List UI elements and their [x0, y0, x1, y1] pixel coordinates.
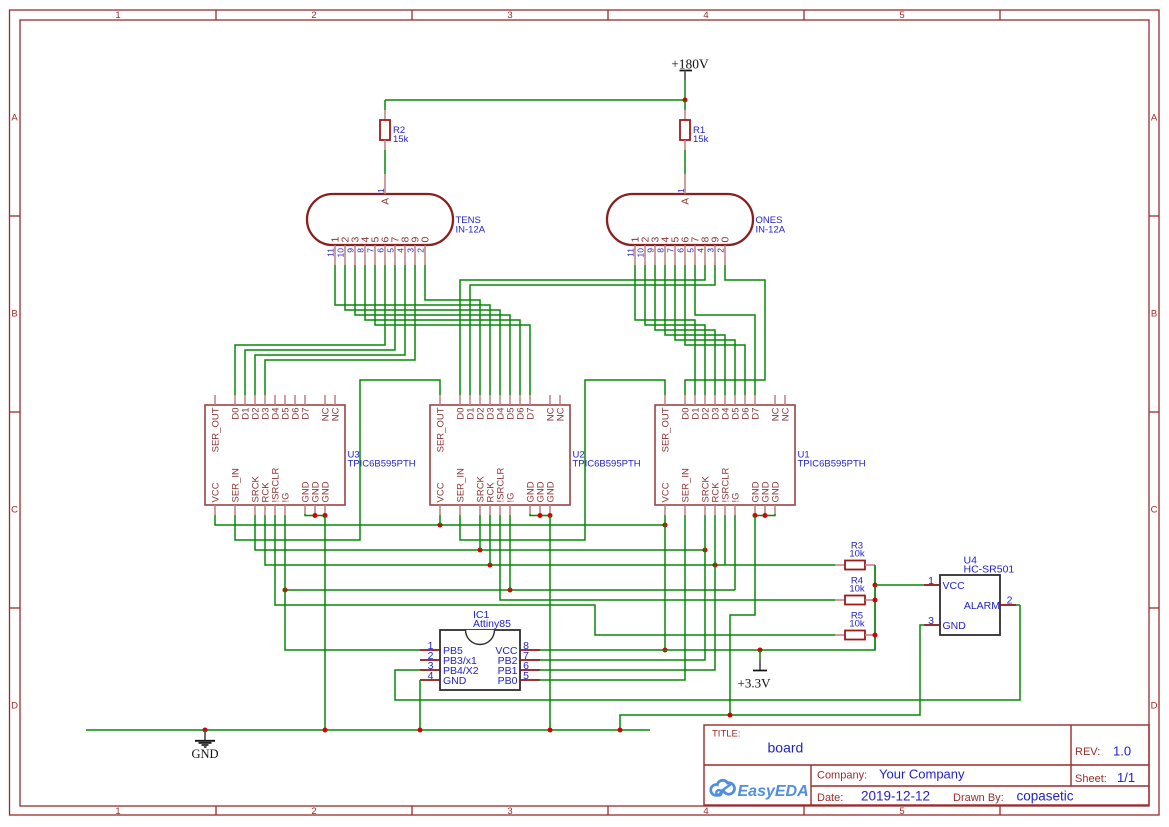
- svg-text:0: 0: [420, 237, 432, 243]
- wire U2 VCC stub wire: [439, 515, 441, 525]
- svg-text:Attiny85: Attiny85: [473, 618, 511, 630]
- wire TENS pin x375 to U2 D x530: [375, 265, 530, 395]
- svg-text:D: D: [1151, 701, 1158, 712]
- wire ONES pin x725 to U1 D0: [685, 265, 765, 395]
- PIR sensor U4 HC-SR501: [924, 555, 1016, 636]
- svg-text:2019-12-12: 2019-12-12: [861, 789, 930, 804]
- svg-text:GND: GND: [546, 481, 557, 502]
- svg-text:SER_OUT: SER_OUT: [211, 407, 222, 452]
- EasyEDA logo: [711, 780, 809, 800]
- wire R2 top: [384, 100, 386, 110]
- wire U2 !G stub wire: [509, 515, 511, 590]
- wire TENS pin x345 to U2 D x500: [345, 265, 500, 395]
- wire U1 GND down: [730, 516, 755, 716]
- shift register U2 TPIC6B595PTH: [430, 395, 641, 515]
- svg-text:5: 5: [523, 670, 529, 682]
- svg-text:3: 3: [507, 806, 512, 817]
- resistor R4: [835, 576, 875, 605]
- svg-text:0: 0: [720, 237, 732, 243]
- svg-text:4: 4: [703, 10, 708, 21]
- wire ONES pin x705 to U2 D0: [460, 265, 705, 395]
- svg-text:GND: GND: [321, 481, 332, 502]
- wire U1 RCK stub wire: [714, 515, 716, 565]
- svg-text:Drawn By:: Drawn By:: [953, 792, 1004, 804]
- svg-text:3: 3: [507, 10, 512, 21]
- svg-text:A: A: [11, 113, 18, 124]
- svg-text:7: 7: [366, 248, 376, 253]
- wire IC1 PB4/X2 to U4 ALARM: [395, 605, 1020, 700]
- svg-text:9: 9: [346, 248, 356, 253]
- wire VCC line IC1: [540, 565, 875, 650]
- wire U2 RCK stub wire: [489, 515, 491, 565]
- wire ONES pin x695 to U1 D x755: [695, 265, 755, 395]
- resistor R5: [835, 611, 875, 640]
- svg-text:2: 2: [311, 10, 316, 21]
- svg-text:1: 1: [928, 575, 934, 587]
- wire U1 SER_OUT to U2 SER_IN: [460, 380, 665, 540]
- wire TENS pin x395 to U3 D x245: [245, 265, 395, 395]
- junction GND rail U3: [323, 728, 328, 733]
- junction U4 GND at U1 GND: [728, 713, 733, 718]
- svg-text:A: A: [381, 198, 392, 205]
- svg-text:SER_OUT: SER_OUT: [436, 407, 447, 452]
- svg-text:2: 2: [716, 248, 726, 253]
- wire !G rail: [285, 589, 735, 591]
- svg-text:Your Company: Your Company: [879, 767, 965, 782]
- junction pullup col R4: [873, 598, 878, 603]
- wire ONES pin x635 to U1 D x695: [635, 265, 695, 395]
- svg-text:D7: D7: [751, 408, 762, 420]
- wire IC1 PB0 to U1 SER_IN: [540, 515, 685, 680]
- svg-text:10: 10: [336, 248, 346, 258]
- svg-text:C: C: [11, 505, 18, 516]
- junction U1 GND link b: [763, 513, 768, 518]
- svg-text:4: 4: [396, 248, 406, 253]
- resistor R2: [380, 110, 409, 150]
- shift register U3 TPIC6B595PTH: [205, 395, 416, 515]
- svg-text:+180V: +180V: [671, 57, 709, 72]
- svg-text:4: 4: [428, 670, 434, 682]
- power flag +180V: [671, 57, 709, 81]
- wire ONES pin x645 to U1 D x705: [645, 265, 705, 395]
- wire ONES pin x655 to U1 D x715: [655, 265, 715, 395]
- svg-text:HC-SR501: HC-SR501: [964, 564, 1015, 576]
- svg-text:NC: NC: [556, 407, 567, 421]
- svg-text:D7: D7: [526, 408, 537, 420]
- shift register U1 TPIC6B595PTH: [655, 395, 866, 515]
- svg-text:B: B: [11, 309, 17, 320]
- svg-text:4: 4: [703, 806, 708, 817]
- wire U2 SRCK stub wire: [479, 515, 481, 550]
- svg-text:SER_IN: SER_IN: [231, 468, 242, 502]
- nixie tube TENS IN-12A: [307, 174, 486, 265]
- wire SRCK rail: [255, 515, 705, 550]
- svg-text:SER_IN: SER_IN: [681, 468, 692, 502]
- wire U1 SRCK stub wire: [704, 515, 706, 550]
- wire U4 GND wire: [620, 625, 924, 730]
- junction GND rail U2: [548, 728, 553, 733]
- junction GND rail IC1: [418, 728, 423, 733]
- wire U3 !G down to PB5: [285, 515, 420, 650]
- svg-text:+3.3V: +3.3V: [738, 676, 772, 691]
- svg-text:1: 1: [676, 188, 686, 193]
- wire RCK rail to R3: [265, 515, 835, 565]
- wire pullup column: [874, 565, 876, 650]
- svg-text:10k: 10k: [849, 584, 865, 595]
- svg-text:8: 8: [656, 248, 666, 253]
- svg-text:1/1: 1/1: [1117, 770, 1135, 785]
- junction GND rail branch: [618, 728, 623, 733]
- svg-text:IN-12A: IN-12A: [456, 225, 486, 236]
- svg-text:GND: GND: [771, 481, 782, 502]
- nixie tube ONES IN-12A: [607, 174, 786, 265]
- wire ONES pin x675 to U1 D x735: [675, 265, 735, 395]
- junction VCC at IC1 line: [663, 648, 668, 653]
- svg-text:SER_OUT: SER_OUT: [661, 407, 672, 452]
- wire TENS pin x355 to U2 D x510: [355, 265, 510, 395]
- svg-text:GND: GND: [443, 675, 467, 687]
- wire R2 bottom: [384, 150, 386, 174]
- svg-text:10: 10: [636, 248, 646, 258]
- svg-text:1: 1: [376, 188, 386, 193]
- svg-text:NC: NC: [781, 407, 792, 421]
- svg-text:copasetic: copasetic: [1017, 789, 1074, 804]
- svg-text:TITLE:: TITLE:: [712, 729, 741, 740]
- wire TENS pin x405 to U3 D x255: [255, 265, 405, 395]
- svg-text:15k: 15k: [393, 134, 409, 145]
- svg-text:4: 4: [696, 248, 706, 253]
- wire SRCK to IC1 PB2: [540, 550, 705, 660]
- wire U4 VCC wire: [875, 584, 924, 586]
- svg-text:1: 1: [115, 10, 120, 21]
- svg-text:1.0: 1.0: [1113, 744, 1131, 759]
- junction SRCK at U1: [703, 548, 708, 553]
- wire U2 !SRCLR to R4: [500, 515, 835, 600]
- wire U1 !SRCLR to RCK rail: [724, 515, 726, 565]
- svg-text:TPIC6B595PTH: TPIC6B595PTH: [573, 459, 641, 470]
- svg-text:2: 2: [311, 806, 316, 817]
- svg-text:VCC: VCC: [211, 482, 222, 502]
- junction U3 GND link a: [313, 513, 318, 518]
- svg-text:D: D: [11, 701, 18, 712]
- junction U2 GND link b: [548, 513, 553, 518]
- ground symbol GND: [191, 730, 218, 761]
- junction !G at U3: [283, 588, 288, 593]
- wire R1 top: [684, 100, 686, 110]
- svg-text:GND: GND: [943, 620, 967, 632]
- svg-text:PB0: PB0: [498, 675, 518, 687]
- wire U1 !G stub wire: [734, 515, 736, 590]
- wire ONES pin x665 to U1 D x725: [665, 265, 725, 395]
- svg-text:3: 3: [406, 248, 416, 253]
- svg-text:!G: !G: [506, 492, 517, 502]
- junction pullup col R5: [873, 633, 878, 638]
- resistor R1: [680, 110, 709, 150]
- wire U2 GND link: [530, 514, 550, 516]
- svg-text:Date:: Date:: [817, 792, 843, 804]
- svg-text:3: 3: [928, 615, 934, 627]
- junction RCK at U2: [488, 563, 493, 568]
- svg-text:ALARM: ALARM: [964, 600, 1000, 612]
- svg-text:15k: 15k: [693, 134, 709, 145]
- power flag +3.3V: [738, 660, 772, 691]
- wire U3 GND link: [305, 514, 325, 516]
- svg-text:5: 5: [686, 248, 696, 253]
- svg-text:VCC: VCC: [436, 482, 447, 502]
- svg-text:!G: !G: [281, 492, 292, 502]
- junction VCC at U2: [438, 523, 443, 528]
- svg-text:11: 11: [326, 248, 336, 257]
- junction VCC at U1: [663, 523, 668, 528]
- svg-text:B: B: [1151, 309, 1157, 320]
- wire U4 ALARM wire: [1016, 604, 1020, 606]
- svg-text:Sheet:: Sheet:: [1075, 773, 1107, 785]
- wire U2 SER_OUT to U3 SER_IN: [235, 380, 440, 540]
- wire TENS pin x415 to U3 D x265: [265, 265, 415, 395]
- svg-text:!G: !G: [731, 492, 742, 502]
- svg-text:EasyEDA: EasyEDA: [738, 783, 809, 800]
- svg-text:6: 6: [376, 248, 386, 253]
- title block: [704, 725, 1149, 805]
- svg-text:VCC: VCC: [661, 482, 672, 502]
- svg-text:Company:: Company:: [817, 769, 867, 781]
- svg-text:6: 6: [676, 248, 686, 253]
- wire U1 VCC down: [664, 515, 666, 650]
- wire RCK to IC1 PB1: [540, 565, 715, 670]
- svg-text:IN-12A: IN-12A: [756, 225, 786, 236]
- svg-text:GND: GND: [191, 747, 218, 761]
- svg-text:SER_IN: SER_IN: [456, 468, 467, 502]
- junction VCC +3.3V tap: [758, 648, 763, 653]
- wire U2 GND down: [549, 516, 551, 731]
- svg-text:2: 2: [1007, 595, 1013, 607]
- svg-text:10k: 10k: [849, 549, 865, 560]
- svg-text:TPIC6B595PTH: TPIC6B595PTH: [348, 459, 416, 470]
- wire +180V stem: [684, 80, 686, 100]
- wire VCC rail: [215, 515, 665, 525]
- junction RCK at U1: [713, 563, 718, 568]
- svg-text:10k: 10k: [849, 619, 865, 630]
- svg-text:2: 2: [416, 248, 426, 253]
- svg-text:5: 5: [386, 248, 396, 253]
- svg-text:1: 1: [115, 806, 120, 817]
- wire anode bus y=100: [385, 99, 685, 101]
- wire ONES pin x685 to U1 D x745: [685, 265, 745, 395]
- svg-text:NC: NC: [331, 407, 342, 421]
- svg-text:3: 3: [706, 248, 716, 253]
- microcontroller IC1 Attiny85: [420, 609, 540, 690]
- svg-text:11: 11: [626, 248, 636, 257]
- junction pullup col U4 VCC: [873, 583, 878, 588]
- junction SRCK at U2: [478, 548, 483, 553]
- wire TENS pin x335 to U2 D x490: [335, 265, 490, 395]
- wire TENS pin x385 to U3 D x235: [235, 265, 385, 395]
- svg-text:A: A: [1151, 113, 1158, 124]
- wire TENS pin x425 to U2 D x480: [425, 265, 480, 395]
- junction +180V node: [683, 98, 688, 103]
- resistor R3: [835, 541, 875, 570]
- svg-text:9: 9: [646, 248, 656, 253]
- wire U3 GND down: [324, 516, 326, 731]
- wire IC1 GND down: [419, 680, 421, 730]
- wire R1 bottom: [684, 150, 686, 174]
- svg-text:5: 5: [899, 806, 904, 817]
- wire U3 !SRCLR to R5: [275, 515, 835, 635]
- wire GND rail: [86, 729, 650, 731]
- junction !G at U2: [508, 588, 513, 593]
- svg-text:8: 8: [356, 248, 366, 253]
- svg-text:C: C: [1151, 505, 1158, 516]
- svg-text:TPIC6B595PTH: TPIC6B595PTH: [798, 459, 866, 470]
- svg-text:D7: D7: [301, 408, 312, 420]
- junction U2 GND link a: [538, 513, 543, 518]
- wire U1 GND link: [755, 514, 775, 516]
- wire +3.3V stem: [759, 650, 761, 660]
- wire TENS pin x365 to U2 D x520: [365, 265, 520, 395]
- junction U3 GND link b: [323, 513, 328, 518]
- junction U1 GND link a: [753, 513, 758, 518]
- svg-text:board: board: [768, 740, 804, 756]
- svg-text:A: A: [681, 198, 692, 205]
- svg-text:VCC: VCC: [943, 580, 966, 592]
- svg-text:5: 5: [899, 10, 904, 21]
- wire ONES pin x715 to U2 D1: [470, 265, 715, 395]
- svg-text:7: 7: [666, 248, 676, 253]
- svg-text:REV:: REV:: [1075, 746, 1100, 758]
- junction GND rail symbol: [203, 728, 208, 733]
